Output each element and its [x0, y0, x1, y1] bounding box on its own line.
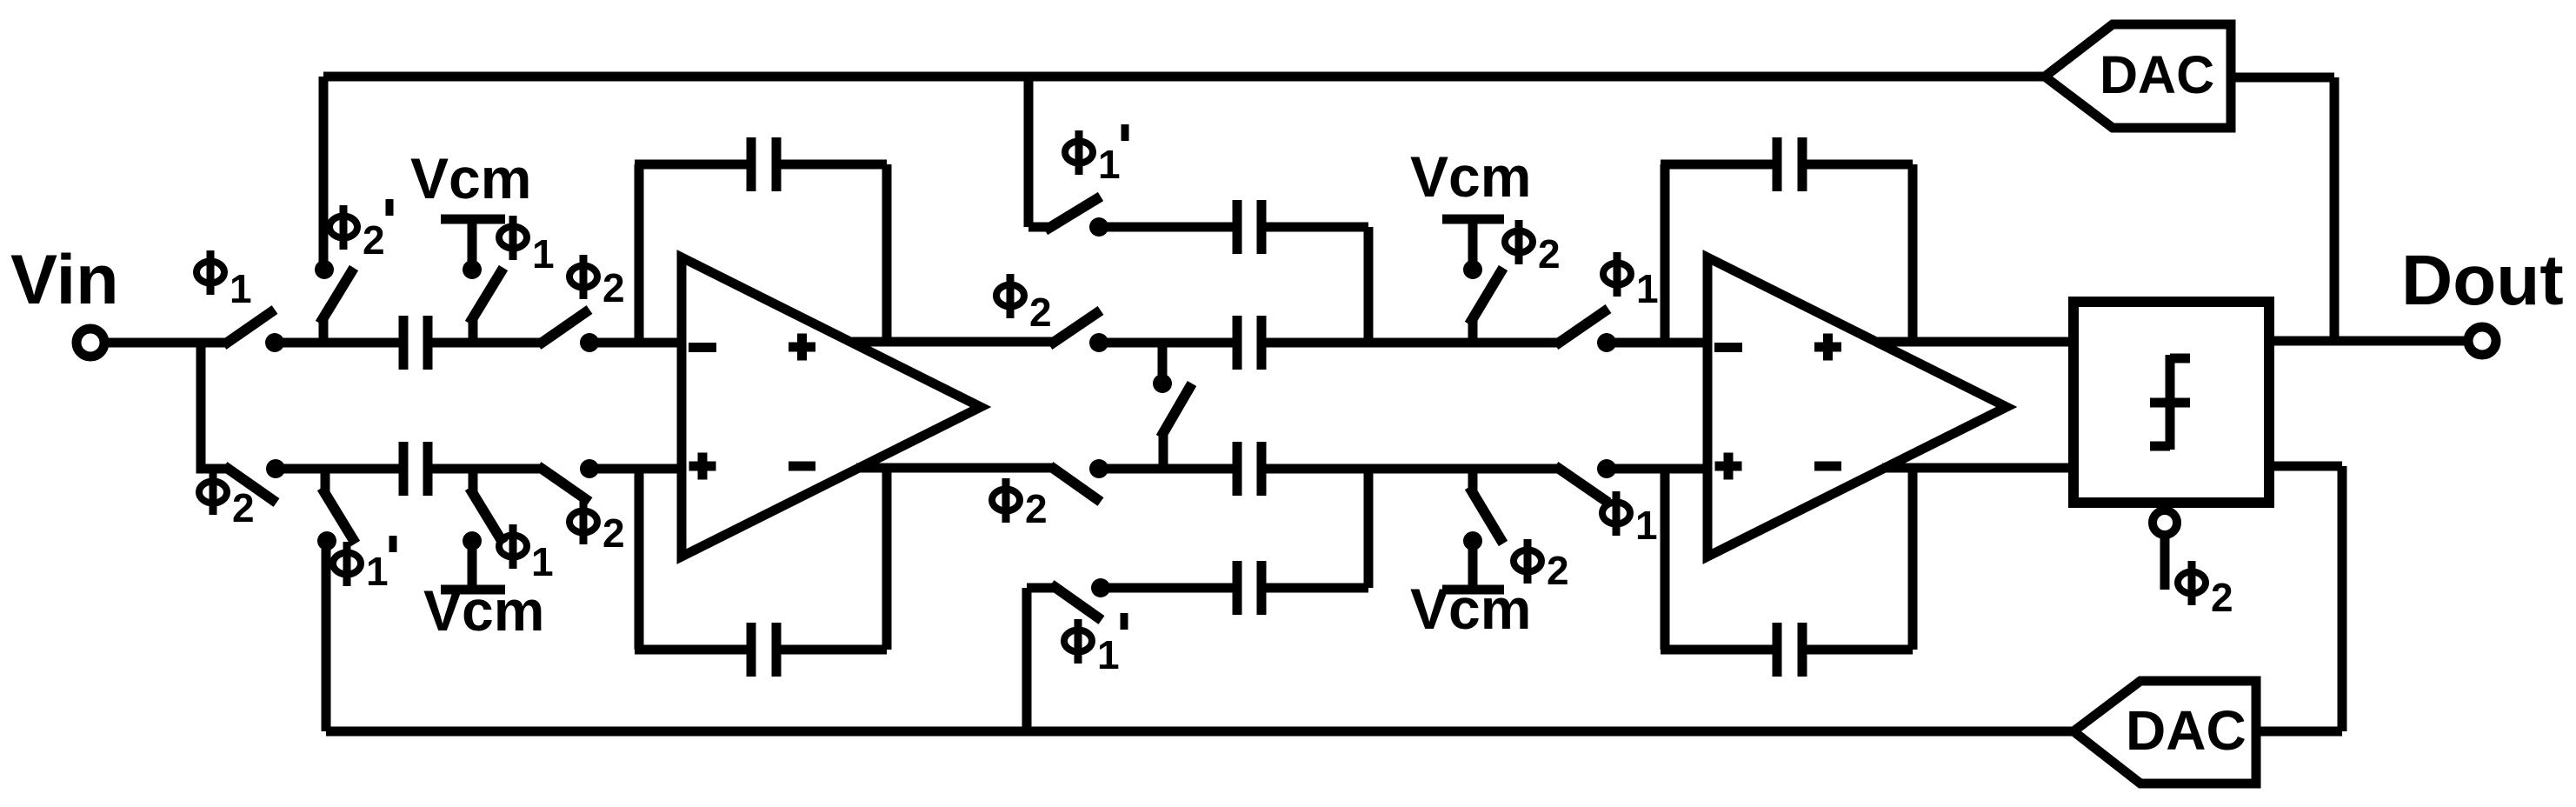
node dot stage2 bottom rail: [1089, 459, 1108, 478]
label phi2' s1 top fb: [329, 199, 389, 263]
label phi2 s1 bottom rail: [569, 500, 625, 556]
switch Φ2 stage2 bottom blade: [1050, 466, 1101, 502]
label phi1 s2 top rail: [1603, 252, 1659, 311]
op-amp U1 plus input sign: [689, 453, 716, 480]
wire Vin to switch: [108, 338, 228, 348]
svg-text:1: 1: [230, 266, 252, 311]
svg-text:Vcm: Vcm: [423, 578, 544, 643]
DAC U3 top pentagon: [2045, 24, 2231, 128]
switch Φ2 Vcm stub stage2 bottom: [1468, 469, 1478, 492]
capacitor Cs2 top plate2: [1257, 316, 1267, 370]
capacitor Cf1 bottom plate2: [772, 623, 782, 677]
switch Φ1' stage2 top blade: [1045, 197, 1101, 230]
svg-text:1: 1: [1635, 503, 1658, 548]
label phi2 s1 bottom input: [199, 470, 255, 530]
switch crossing stub from top rail: [1158, 343, 1168, 376]
node dot Vcm bottom contact: [463, 531, 482, 550]
svg-text:1: 1: [366, 549, 389, 594]
wire top rail to op-amp1: [589, 338, 682, 348]
wire stage2 top rail cap to op-amp2: [1266, 338, 1560, 348]
node dot Vcm stage2 top: [1463, 260, 1482, 279]
wire U2 fb top right horizontal: [1807, 160, 1913, 170]
Vcm stem stage1 bottom: [468, 541, 477, 590]
svg-text:2: 2: [602, 265, 625, 310]
svg-text:1: 1: [1098, 142, 1121, 187]
op-amp U1 minus input sign: [689, 343, 716, 352]
capacitor Cs2 bottom plate2: [1257, 442, 1267, 496]
capacitor Cf2 top plate2: [1798, 137, 1807, 191]
switch Φ2 bottom rail blade: [538, 466, 589, 502]
comparator clock stem: [2160, 537, 2170, 590]
wire feedback top vertical: [2330, 77, 2340, 341]
comparator hysteresis symbol vertical: [2166, 355, 2175, 450]
capacitor Cs2 top plate1: [1233, 316, 1242, 370]
wire feedback bottom from comparator: [2269, 462, 2342, 471]
svg-text:1: 1: [531, 539, 554, 584]
capacitor Cf2 top plate1: [1773, 137, 1782, 191]
wire fb top right vertical: [882, 164, 892, 342]
wire op-amp1 top output: [852, 337, 1054, 347]
op-amp U1 plus output sign: [789, 334, 815, 361]
switch Φ2 Vcm stub stage2 top: [1468, 319, 1478, 343]
switch crossing stub from bottom rail: [1159, 432, 1168, 469]
svg-text:2: 2: [363, 217, 385, 263]
svg-text:Vcm: Vcm: [410, 146, 531, 210]
Vcm symbol top stage1: bar: [441, 215, 505, 224]
wire op-amp1 bottom output: [856, 464, 1055, 473]
wire bottom rail dot to cap: [276, 464, 399, 474]
node dot crossing switch: [1153, 374, 1172, 393]
switch Φ2 top rail blade: [538, 310, 589, 345]
terminal Dout: [2468, 327, 2496, 355]
capacitor Cb2 top plate1: [1233, 200, 1242, 254]
label phi2 clock: [2178, 561, 2233, 620]
switch Φ1 top input blade: [223, 310, 275, 345]
wire U2 fb top left horizontal: [1661, 160, 1773, 170]
label phi2 s2 bottom vcm: [1514, 539, 1569, 593]
switch Φ1' stage2 top: vertical from DAC wire: [1024, 77, 1034, 227]
wire Φ1' foot bottom: [1027, 584, 1055, 593]
node dot Vcm top contact: [463, 260, 482, 279]
terminal Vin: [77, 329, 104, 357]
op-amp U1 triangle: [682, 257, 981, 557]
node dot Φ1 stage2 top: [1597, 333, 1616, 352]
Vcm stem stage2 bottom: [1468, 541, 1478, 590]
Vcm stem stage2 top: [1468, 219, 1478, 270]
comparator hysteresis bottom bar: [2150, 442, 2170, 451]
node dot Vcm stage2 bottom: [1463, 531, 1482, 550]
wire Dout output: [2269, 337, 2464, 346]
wire op-amp2 bottom output to comparator: [1882, 464, 2073, 473]
svg-text:1: 1: [1636, 266, 1659, 311]
wire bottom branch dot to cap: [1101, 584, 1233, 593]
label phi1' s2 top fb: [1065, 124, 1125, 187]
switch Φ2' blade: [320, 268, 354, 323]
op-amp U2 plus input sign: [1715, 453, 1742, 480]
node dot Φ2 top: [580, 333, 599, 352]
op-amp U1 feedback bottom: left vertical: [635, 469, 644, 650]
svg-text:DAC: DAC: [2100, 45, 2214, 104]
capacitor Cs1 bottom plate2: [423, 442, 433, 496]
comparator box: [2073, 302, 2269, 503]
svg-text:2: 2: [2211, 575, 2233, 620]
wire top rail cap to Φ2 switch: [432, 338, 542, 348]
wire bottom branch corner up to rail: [1364, 469, 1374, 588]
switch crossing blade: [1161, 383, 1192, 437]
op-amp U1 feedback top: left vertical: [635, 164, 644, 343]
op-amp U2 feedback top: left vertical: [1661, 164, 1670, 343]
svg-text:2: 2: [1025, 486, 1048, 531]
wire fb top right horizontal: [781, 160, 887, 170]
node dot Φ1' stage2 bottom: [1091, 578, 1110, 597]
node dot top input switch: [265, 333, 284, 352]
wire Φ1' foot top: [1028, 223, 1050, 232]
switch Φ1 stage2 top rail blade: [1555, 309, 1608, 345]
node dot Φ1 stage2 bottom: [1597, 459, 1616, 478]
op-amp U2 plus output sign: [1814, 334, 1841, 361]
wire top branch cap to corner: [1266, 223, 1368, 232]
capacitor Cb2 bottom plate1: [1233, 561, 1242, 615]
capacitor Cf2 bottom plate2: [1798, 623, 1807, 677]
Vcm stem stage1 top: [468, 219, 477, 270]
wire feedback bottom to DAC2: [2256, 727, 2342, 737]
wire bottom branch cap to corner: [1266, 584, 1368, 593]
switch Φ2 Vcm blade stage2 bottom: [1469, 487, 1503, 544]
switch Φ2 Vcm blade stage2 top: [1469, 268, 1503, 324]
wire fb bottom right vertical: [882, 468, 892, 650]
switch Φ1 Vcm blade top: [469, 268, 503, 323]
node dot bottom input switch: [266, 459, 285, 478]
capacitor Cs1 top plate2: [423, 316, 433, 370]
capacitor Cf1 top plate1: [747, 137, 756, 191]
switch Φ1' stage2 bottom: vertical from DAC wire: [1022, 588, 1032, 731]
wire fb bottom right horizontal: [781, 645, 887, 655]
svg-text:DAC: DAC: [2126, 699, 2247, 762]
switch Φ2 bottom input blade: [224, 466, 276, 503]
label phi1 s1 top vcm: [499, 216, 555, 277]
wire feedback top to DAC1: [2231, 73, 2334, 83]
wire U2 fb bottom right horizontal: [1807, 645, 1913, 655]
Vcm symbol stage2 bottom: bar: [1442, 585, 1504, 595]
wire DAC2 output long bottom: [326, 727, 2073, 737]
label phi1' s2 bottom fb: [1064, 613, 1124, 677]
switch Φ1' stage2 bottom blade: [1051, 584, 1102, 620]
node dot stage2 top rail: [1089, 333, 1108, 352]
switch Φ1 Vcm blade bottom: [469, 488, 503, 544]
op-amp U2 minus input sign: [1714, 343, 1742, 352]
svg-text:1: 1: [532, 231, 555, 277]
wire fb bottom left horizontal: [635, 645, 747, 655]
wire op-amp2 top output to comparator: [1878, 337, 2073, 347]
wire bottom rail to op-amp1: [589, 464, 682, 474]
wire bottom rail to op-amp2: [1607, 464, 1707, 474]
svg-text:Vcm: Vcm: [1410, 577, 1531, 641]
capacitor Cf1 bottom plate1: [747, 623, 756, 677]
switch Φ1' stub bottom: [321, 469, 330, 493]
capacitor Cb2 top plate2: [1257, 200, 1267, 254]
svg-text:2: 2: [232, 485, 255, 530]
wire top rail dot to cap: [275, 338, 399, 348]
wire fb top left horizontal: [635, 160, 747, 170]
switch Φ1 Vcm stub bottom: [469, 469, 478, 493]
switch Φ1 stage2 bottom rail blade: [1555, 466, 1608, 503]
switch Φ1' blade bottom: [322, 488, 356, 544]
capacitor Cb2 bottom plate2: [1257, 561, 1267, 615]
label phi2 s2 top rail: [996, 274, 1052, 335]
Vcm symbol bottom stage1: bar: [441, 585, 505, 595]
wire stage2 bottom rail cap to op-amp2: [1266, 464, 1560, 474]
label phi1' s1 bottom fb: [333, 536, 393, 594]
switch Φ1 Vcm stub top: [469, 318, 478, 343]
label phi1 s2 bottom rail: [1602, 491, 1658, 548]
label phi2 s2 top vcm: [1505, 220, 1561, 277]
comparator hysteresis middle bar: [2150, 398, 2190, 408]
capacitor Cf1 top plate2: [772, 137, 782, 191]
op-amp U2 feedback bottom: left vertical: [1661, 469, 1670, 650]
wire U2 fb top right vertical: [1908, 164, 1918, 342]
comparator clock bubble: [2153, 510, 2177, 535]
op-amp U2 minus output sign: [1814, 462, 1841, 471]
node dot Φ2 bottom: [580, 459, 599, 478]
wire stage2 top rail to cap: [1099, 338, 1233, 348]
wire DAC1 output long top: [323, 72, 2045, 82]
label phi1 s1 bottom vcm: [499, 524, 554, 584]
svg-text:1: 1: [1097, 632, 1120, 677]
label phi2 s1 top rail: [569, 255, 625, 310]
wire DAC feedback vertical bottom left: [322, 541, 331, 731]
wire top rail to op-amp2: [1607, 338, 1707, 348]
label phi2 s2 bottom rail: [992, 478, 1048, 531]
switch Φ2 stage2 top blade: [1049, 310, 1101, 345]
svg-text:2: 2: [1538, 231, 1561, 277]
node dot Φ1' stage2 top: [1089, 217, 1108, 237]
wire input T vertical to bottom rail: [201, 343, 228, 469]
capacitor Cs1 bottom plate1: [399, 442, 409, 496]
wire top branch corner down to rail: [1364, 227, 1374, 343]
switch Φ2' stub: [319, 318, 329, 343]
wire stage2 bottom rail to cap: [1099, 464, 1233, 474]
svg-text:Vcm: Vcm: [1410, 144, 1531, 209]
svg-text:Dout: Dout: [2401, 241, 2564, 320]
capacitor Cs1 top plate1: [399, 316, 409, 370]
svg-text:2: 2: [1547, 548, 1569, 593]
DAC U4 bottom pentagon: [2073, 681, 2256, 784]
capacitor Cf2 bottom plate1: [1773, 623, 1782, 677]
svg-text:2: 2: [602, 510, 625, 556]
label phi1 s1 top input: [196, 250, 252, 311]
wire U2 fb bottom right vertical: [1908, 468, 1918, 650]
op-amp U1 minus output sign: [789, 462, 815, 471]
node dot Φ2' contact: [315, 260, 334, 279]
Vcm symbol stage2 top: bar: [1442, 215, 1504, 224]
op-amp U2 triangle: [1707, 257, 2007, 557]
capacitor Cs2 bottom plate1: [1233, 442, 1242, 496]
wire DAC feedback vertical left: [319, 77, 329, 270]
wire feedback bottom vertical: [2338, 466, 2347, 731]
comparator hysteresis top bar: [2170, 354, 2190, 363]
wire top branch dot to cap: [1099, 223, 1233, 232]
node dot Φ1' contact: [317, 531, 336, 550]
svg-text:2: 2: [1029, 290, 1052, 335]
wire bottom rail cap to Φ2 switch: [432, 464, 542, 474]
svg-text:Vin: Vin: [10, 241, 119, 319]
wire U2 fb bottom left horizontal: [1661, 645, 1773, 655]
